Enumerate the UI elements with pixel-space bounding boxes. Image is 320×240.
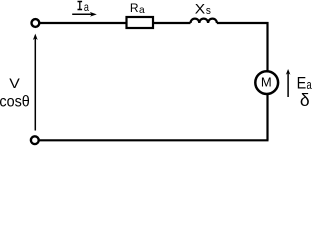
svg-text:s: s [206,5,211,17]
svg-text:X: X [195,2,206,18]
svg-text:a: a [139,5,145,16]
svg-text:M: M [261,75,272,90]
svg-text:cosθ: cosθ [0,94,30,111]
svg-text:V: V [9,76,20,92]
svg-text:δ: δ [300,90,310,110]
svg-text:R: R [130,1,139,15]
svg-text:a: a [84,0,89,14]
